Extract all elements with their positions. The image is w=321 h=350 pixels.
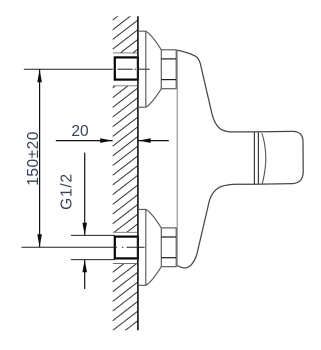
dimension line G1/2 lower with arrowhead (84, 260, 86, 289)
handle cone line (262, 133, 266, 183)
dimension line G1/2 upper with arrowhead (84, 153, 86, 236)
wall cutout top (112, 53, 137, 86)
wall cutout bottom edge lines (113, 231, 138, 233)
dimension line 20 left with arrowhead (56, 140, 113, 142)
S-union fitting top (115, 57, 138, 79)
union nut bottom (161, 228, 176, 267)
wall cutout top edge lines (113, 52, 138, 54)
cartridge joint lines (253, 132, 255, 184)
mixer body lower contour (177, 184, 254, 268)
dimension line 150+-20 (39, 69, 41, 247)
svg-text:20: 20 (71, 123, 89, 140)
union nut bottom facet lines (161, 236, 176, 238)
wall surface line (137, 16, 139, 330)
mixer body upper contour (177, 50, 254, 132)
centerline top fitting (also 150 dim extension) (24, 68, 113, 70)
escutcheon top: base (138, 31, 161, 107)
svg-text:G1/2: G1/2 (59, 173, 76, 210)
arrowhead up 150+-20 (37, 69, 42, 82)
S-union fitting bottom (115, 237, 138, 259)
union nut top facet lines (161, 58, 176, 60)
union nut top (161, 50, 176, 89)
mixer body rear edge (176, 50, 178, 265)
svg-text:150±20: 150±20 (25, 131, 42, 186)
wall hatching (113, 1, 138, 341)
centerline bottom fitting (also 150 dim extension) (22, 246, 117, 248)
escutcheon bottom: base (138, 209, 161, 285)
dimension line 20 right with arrowhead (138, 140, 169, 142)
wall cutout bottom (112, 232, 137, 263)
handle outline (254, 131, 303, 184)
arrowhead down 150+-20 (37, 234, 42, 247)
extension lines G1/2 (71, 234, 115, 236)
